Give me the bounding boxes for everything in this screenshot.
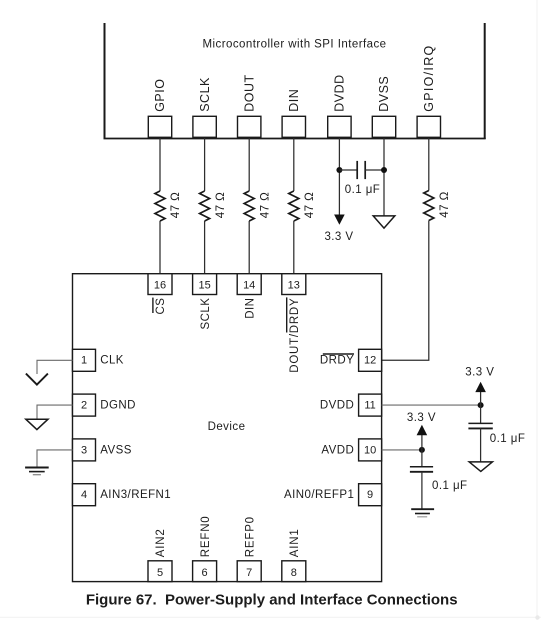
wire DVDD supply [338, 138, 340, 215]
page corner mark [535, 615, 539, 619]
svg-text:10: 10 [364, 444, 376, 456]
svg-text:6: 6 [202, 567, 208, 579]
ground DGND triangle [26, 419, 48, 429]
device pin 1 CLK [73, 349, 124, 371]
node DVDD junction [336, 167, 342, 173]
capacitor C2 0.1 uF [468, 423, 525, 445]
svg-text:47 Ω: 47 Ω [304, 192, 316, 218]
wire AVDD pin10 to junction [382, 449, 422, 451]
device pin 6 REFN0 [193, 515, 217, 581]
svg-text:Figure 67. Power-Supply and I: Figure 67. Power-Supply and Interface Co… [86, 591, 458, 608]
wire DVSS [383, 138, 385, 216]
svg-text:DOUT: DOUT [242, 74, 256, 111]
svg-text:Microcontroller with SPI Inter: Microcontroller with SPI Interface [202, 39, 386, 51]
wire DIN to R4 [293, 138, 295, 191]
svg-text:AIN2: AIN2 [155, 528, 167, 557]
svg-text:16: 16 [154, 279, 166, 291]
wire R1 to device pin 16 [159, 221, 161, 274]
ground triangle DVDD cap [469, 462, 492, 472]
svg-text:SCLK: SCLK [200, 298, 212, 330]
device pin 2 DGND [73, 394, 136, 416]
wire AVSS stub [37, 450, 73, 467]
device pin 13 DOUT/DRDY [282, 274, 306, 373]
svg-text:11: 11 [364, 400, 375, 412]
resistor R5 47 ohm [424, 191, 451, 221]
wire CLK stub [37, 360, 73, 374]
svg-text:47 Ω: 47 Ω [215, 192, 227, 218]
svg-text:DVSS: DVSS [377, 76, 391, 112]
wire R2 to device pin 15 [204, 221, 206, 274]
MCU pin GPIO/IRQ [417, 44, 440, 137]
ground AVSS earth [25, 468, 49, 475]
wire junction up to arrow [480, 392, 482, 405]
svg-text:47 Ω: 47 Ω [170, 192, 182, 218]
wire junction down to C2 [480, 405, 482, 423]
device pin 5 AIN2 [148, 528, 172, 581]
svg-text:DIN: DIN [244, 298, 256, 319]
svg-text:DVDD: DVDD [333, 74, 347, 111]
svg-text:2: 2 [81, 400, 87, 412]
device U2 box [73, 274, 382, 582]
svg-text:AVDD: AVDD [321, 444, 354, 456]
wire R4 to device pin 13 [293, 221, 295, 274]
device pin 9 AIN0/REFP1 [284, 484, 382, 506]
svg-text:0.1 μF: 0.1 μF [490, 433, 526, 445]
svg-text:5: 5 [157, 567, 163, 579]
device pin 16 CS [148, 274, 172, 315]
svg-text:14: 14 [243, 279, 255, 291]
svg-text:3.3 V: 3.3 V [465, 367, 494, 379]
node DVSS junction [381, 167, 387, 173]
svg-text:9: 9 [367, 489, 373, 501]
device pin 14 DIN [237, 274, 261, 319]
svg-text:REFN0: REFN0 [200, 515, 212, 557]
svg-text:3.3 V: 3.3 V [324, 231, 353, 243]
device pin 15 SCLK [193, 274, 217, 330]
device pin 10 AVDD [321, 439, 381, 461]
wire C1 left stub [339, 169, 357, 171]
ground DVSS triangle [373, 216, 395, 228]
svg-text:AIN1: AIN1 [289, 528, 301, 557]
resistor R4 47 ohm [289, 191, 316, 221]
supply arrow 3.3 V DVDD net [465, 367, 494, 393]
page edge faint horizontal rule [0, 616, 541, 618]
svg-text:DOUT/DRDY: DOUT/DRDY [289, 298, 301, 373]
microcontroller U1 box [104, 23, 486, 139]
supply arrow 3.3 V DVDD [324, 215, 353, 243]
svg-text:DGND: DGND [100, 400, 136, 412]
page edge faint vertical rule [536, 0, 538, 620]
svg-text:SCLK: SCLK [198, 77, 212, 112]
wire R3 to device pin 14 [248, 221, 250, 274]
wire DOUT to R3 [248, 138, 250, 191]
node AVDD net junction [419, 447, 425, 453]
device pin 12 DRDY [320, 349, 382, 371]
svg-text:AVSS: AVSS [100, 444, 132, 456]
wire junction up to arrow [421, 435, 423, 450]
svg-text:REFP0: REFP0 [244, 516, 256, 557]
svg-text:3: 3 [81, 444, 87, 456]
svg-text:GPIO: GPIO [153, 79, 167, 112]
svg-text:CLK: CLK [100, 355, 124, 367]
svg-text:3.3 V: 3.3 V [407, 412, 436, 424]
wire DVDD pin11 to junction [382, 404, 481, 406]
svg-text:0.1 μF: 0.1 μF [432, 480, 468, 492]
node DVDD net junction [478, 402, 484, 408]
svg-text:1: 1 [81, 355, 87, 367]
MCU pin GPIO [148, 79, 171, 138]
MCU pin SCLK [193, 77, 216, 137]
svg-text:AIN3/REFN1: AIN3/REFN1 [100, 489, 171, 501]
svg-text:13: 13 [288, 279, 300, 291]
ground AVDD earth [411, 509, 434, 517]
svg-text:7: 7 [246, 567, 252, 579]
wire GPIO to R1 [159, 138, 161, 191]
svg-text:DIN: DIN [287, 89, 301, 112]
supply arrow 3.3 V AVDD net [407, 412, 436, 435]
MCU pin DIN [282, 89, 305, 138]
svg-text:8: 8 [291, 567, 297, 579]
svg-text:47 Ω: 47 Ω [439, 191, 451, 217]
wire DGND stub [37, 405, 73, 419]
svg-text:DRDY: DRDY [320, 355, 354, 367]
resistor R3 47 ohm [244, 191, 271, 221]
device pin 11 DVDD [320, 394, 382, 416]
svg-text:47 Ω: 47 Ω [259, 192, 271, 218]
wire C2 to ground [480, 428, 482, 461]
svg-text:4: 4 [81, 489, 87, 501]
device pin 4 AIN3/REFN1 [73, 484, 172, 506]
wire C1 right stub [365, 169, 384, 171]
MCU pin DOUT [238, 74, 261, 137]
wire SCLK to R2 [204, 138, 206, 191]
wire GPIO/IRQ to R5 [428, 138, 430, 191]
svg-text:12: 12 [364, 355, 376, 367]
MCU pin DVSS [372, 76, 395, 138]
svg-text:Device: Device [208, 421, 246, 433]
svg-text:0.1 μF: 0.1 μF [345, 184, 381, 196]
wire R5 to device pin 12 [382, 221, 429, 361]
MCU pin DVDD [328, 74, 351, 137]
svg-text:DVDD: DVDD [320, 400, 354, 412]
capacitor C3 0.1 uF [410, 467, 468, 492]
svg-text:CS: CS [155, 298, 167, 315]
clock arrow chevron [26, 374, 48, 385]
device pin 7 REFP0 [237, 516, 261, 581]
device pin 3 AVSS [73, 439, 132, 461]
wire junction down to C3 [421, 450, 423, 467]
svg-text:15: 15 [198, 279, 210, 291]
svg-text:GPIO/IRQ: GPIO/IRQ [422, 44, 436, 111]
resistor R1 47 ohm [155, 191, 182, 221]
capacitor C1 0.1 uF [345, 161, 381, 196]
wire C3 to ground [421, 472, 423, 509]
svg-text:AIN0/REFP1: AIN0/REFP1 [284, 489, 354, 501]
resistor R2 47 ohm [200, 191, 227, 221]
device pin 8 AIN1 [282, 528, 306, 581]
